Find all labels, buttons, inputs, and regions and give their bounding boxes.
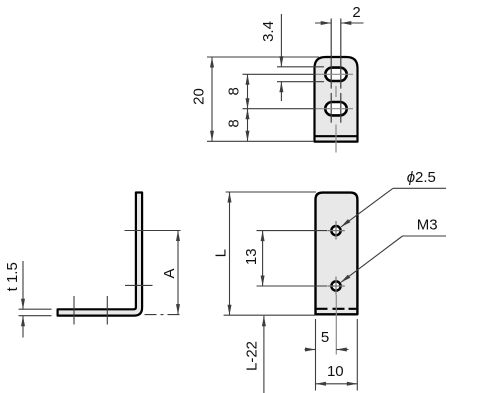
side view: bottom dash-dot datum line xyxy=(145,314,182,316)
svg-text:t 1.5: t 1.5 xyxy=(4,262,21,291)
top view: vertical centerline below slot S2 xyxy=(335,125,337,153)
front view: hole H2 circle (tap M3) xyxy=(331,281,340,290)
dimension 8 lower arrow down xyxy=(246,131,250,142)
side view: L-profile outline xyxy=(58,193,143,316)
dimension line 5 left segment xyxy=(305,349,316,351)
dimension line 2 left segment xyxy=(315,22,331,24)
front view: hole H1 circle (drill 2.5) xyxy=(331,226,340,235)
dimension 3.4 arrow up (to slot bottom) xyxy=(279,82,283,93)
svg-text:L: L xyxy=(213,249,230,257)
top view: edge line of bent leg (inner line of bottom strip) xyxy=(314,135,359,137)
dimension A arrow down xyxy=(176,304,180,315)
extension line: slot S1 top edge (for dim 3.4) xyxy=(277,66,324,68)
front view: part outline (vertical leg) xyxy=(316,193,358,315)
dimension line 20 (vertical) xyxy=(211,57,213,141)
svg-text:A: A xyxy=(161,268,178,278)
dimension line 5 right segment xyxy=(336,349,348,351)
side view: tick mark on horizontal leg (slot S1 position) xyxy=(106,296,108,325)
dimension line 2 right segment xyxy=(341,22,364,24)
dimension 2 arrow left xyxy=(341,21,352,25)
dimension 8 upper arrow down xyxy=(246,98,250,109)
extension line: front view top edge (for dim L) xyxy=(226,191,316,193)
front view: vertical centerline below hole H2 xyxy=(335,295,337,355)
dimension line 8 upper (vertical) xyxy=(247,74,249,108)
dimension L arrow up xyxy=(228,192,232,203)
side view: hole H1 level line across vertical leg / extension for dim A xyxy=(125,230,181,232)
extension line: front view right edge extended down (for dim 10) xyxy=(356,319,358,391)
dimension 13 arrow down xyxy=(261,276,265,287)
dimension line L (vertical) xyxy=(229,192,231,315)
dimension line 13 (vertical) xyxy=(262,231,264,286)
top view: slot hole S1 (obround 3.4 long) xyxy=(325,68,346,81)
front view: hidden bend tangent line (dashed) xyxy=(317,308,357,310)
extension line: bottom edge of top view (for dims 20 and 8) xyxy=(207,140,314,142)
dimension line t1.5 upper segment xyxy=(22,261,24,309)
svg-text:8: 8 xyxy=(226,87,243,95)
svg-text:L-22: L-22 xyxy=(244,341,261,371)
side view: tick mark on horizontal leg (slot S2 position) xyxy=(73,296,75,325)
dimension 3.4 arrow down (to slot top) xyxy=(279,56,283,67)
dimension 20 arrow up xyxy=(210,57,214,68)
front view: hole H2 vertical centerline xyxy=(335,277,337,295)
svg-text:13: 13 xyxy=(243,248,260,265)
extension line: bottom of horizontal leg (for dim t1.5) xyxy=(19,315,52,317)
dimension line A (vertical) xyxy=(177,231,179,315)
svg-text:8: 8 xyxy=(226,119,243,127)
top view: slot S2 horizontal centerline xyxy=(316,108,353,110)
dimension 8 upper arrow up xyxy=(246,74,250,85)
dimension t1.5 arrow down xyxy=(21,299,25,310)
extension line: top edge of top view (for dim 20) xyxy=(207,56,319,58)
extension line: slot S1 center (for dim 8) xyxy=(243,73,317,75)
dimension 20 arrow down xyxy=(210,131,214,142)
svg-text:5: 5 xyxy=(321,329,329,346)
extension line: slot S1 bottom edge (for dim 3.4) xyxy=(277,81,324,83)
dimension L arrow down xyxy=(228,305,232,316)
dimension L-22 arrow up xyxy=(262,316,266,327)
dimension 2 arrow right xyxy=(321,21,332,25)
svg-text:ϕ2.5: ϕ2.5 xyxy=(407,169,436,186)
top view: hidden edge line right lower segment xyxy=(340,93,342,123)
extension line: front view left edge extended down (for dims 5/10) xyxy=(315,319,317,391)
side view: hole H2 level tick across vertical leg xyxy=(125,284,153,286)
front view: hole H1 vertical centerline xyxy=(335,221,337,240)
leader arrowhead at hole H2 xyxy=(341,275,351,283)
dimension line t1.5 lower segment xyxy=(22,316,24,338)
dimension line 8 lower (vertical) xyxy=(247,109,249,142)
extension line: hole H2 center (for dim 13) xyxy=(257,285,328,287)
top view: hidden edge line right upper segment (width-2 projection) xyxy=(340,19,342,89)
dimension line 3.4 lower segment xyxy=(280,82,282,101)
top view: slot hole S2 (obround 3.4 long) xyxy=(325,102,346,115)
leader line for hole H2 label xyxy=(341,236,402,282)
top view: part outline (tab seen from top) xyxy=(315,57,358,142)
extension line: front view bottom edge (for dims L / L-22) xyxy=(224,314,315,316)
top view: hidden edge line left lower segment xyxy=(330,93,332,123)
dimension 10 arrow right xyxy=(347,382,358,386)
dimension 13 arrow up xyxy=(261,231,265,242)
svg-text:M3: M3 xyxy=(417,217,438,234)
dimension 5 arrow left xyxy=(336,348,347,352)
dimension line 3.4 upper segment xyxy=(280,14,282,67)
top view: hidden edge line left upper segment (width-2 projection) xyxy=(330,19,332,89)
extension line: top of horizontal leg (for dim t1.5) xyxy=(19,308,52,310)
leader arrowhead at hole H1 xyxy=(341,219,351,227)
top view: vertical centerline between slots xyxy=(335,86,337,97)
top view: slot S1 horizontal centerline xyxy=(316,73,353,75)
svg-text:3.4: 3.4 xyxy=(260,21,277,42)
dimension 5 arrow right xyxy=(305,348,316,352)
extension line: slot S2 center (for dims 8/8) xyxy=(243,108,317,110)
svg-text:20: 20 xyxy=(191,88,208,105)
front view: hole H1 horizontal centerline xyxy=(327,230,344,232)
dimension line 10 (horizontal) xyxy=(316,383,358,385)
front view: hole H2 horizontal centerline xyxy=(327,285,344,287)
dimension A arrow up xyxy=(176,231,180,242)
svg-text:10: 10 xyxy=(327,363,344,380)
dimension 8 lower arrow up xyxy=(246,109,250,120)
dimension t1.5 arrow up xyxy=(21,316,25,327)
dimension line L-22 (vertical, runs off bottom) xyxy=(263,316,265,393)
extension line: hole H1 center (for dim 13) xyxy=(257,230,328,232)
svg-text:2: 2 xyxy=(352,4,360,21)
leader line for hole H1 label xyxy=(341,188,393,227)
dimension 10 arrow left xyxy=(316,382,327,386)
